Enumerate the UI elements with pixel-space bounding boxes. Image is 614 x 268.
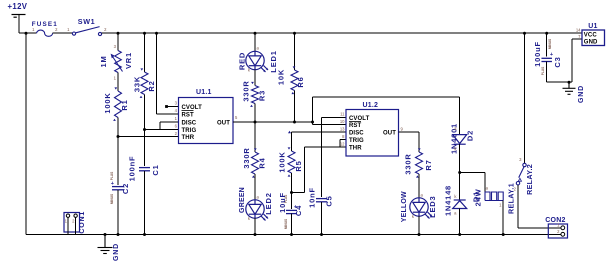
wire R1 to THR node <box>117 118 119 186</box>
svg-text:R6: R6 <box>296 76 305 87</box>
svg-text:C2: C2 <box>121 183 130 194</box>
svg-text:THR: THR <box>349 145 362 151</box>
wire VR1 to R1 <box>117 73 119 92</box>
svg-text:33K: 33K <box>133 76 142 92</box>
svg-text:1N4148: 1N4148 <box>443 185 452 216</box>
svg-text:VR1: VR1 <box>124 52 133 69</box>
relay coil RELAY.1 24W <box>485 192 503 201</box>
svg-text:MINUS: MINUS <box>548 39 552 49</box>
wire R2 to C1 <box>144 95 146 167</box>
svg-text:+: + <box>111 181 114 187</box>
wire top link down to D2 <box>459 97 461 135</box>
switch SW1 <box>72 27 101 36</box>
wire CVOLT U1.2 to C5 <box>322 117 347 119</box>
svg-text:U1.2: U1.2 <box>363 102 379 109</box>
LED LED2 green <box>246 200 268 221</box>
svg-text:SW1: SW1 <box>78 17 95 26</box>
wire OUT U1.2 to R7 <box>399 131 420 133</box>
capacitor C5 10nF <box>316 199 327 202</box>
wire RST stub U1.2 <box>313 124 347 126</box>
svg-text:MINUS: MINUS <box>284 219 288 229</box>
svg-text:11: 11 <box>340 112 345 117</box>
resistor R4 330R <box>252 152 259 174</box>
wire C2 to ground rail <box>117 190 119 235</box>
svg-text:THR: THR <box>182 135 195 141</box>
svg-text:DISC: DISC <box>182 120 197 126</box>
wire top link to D2 <box>313 96 460 98</box>
wire rail to contact <box>524 33 526 163</box>
wire THR line U1.1 <box>118 136 179 138</box>
node R5 C4 junction <box>290 191 293 194</box>
svg-text:LED2: LED2 <box>264 192 273 214</box>
wire R3 to OUT line <box>254 104 256 123</box>
wire R6 to OUT line <box>294 91 296 123</box>
power block U1 <box>582 30 605 46</box>
svg-text:PLUS: PLUS <box>541 67 545 76</box>
svg-text:14: 14 <box>576 28 581 33</box>
wire vertical to top link <box>312 97 314 125</box>
wire CVOLT stub U1.1 <box>165 105 168 108</box>
svg-text:TRIG: TRIG <box>349 138 364 144</box>
svg-text:TRIG: TRIG <box>182 128 197 134</box>
svg-text:CVOLT: CVOLT <box>349 116 370 122</box>
svg-text:12: 12 <box>340 142 345 147</box>
node rail LED1 junction <box>254 32 257 35</box>
wire R7 to LED3 <box>418 174 420 198</box>
svg-text:24W: 24W <box>474 188 483 206</box>
wire rail to C3 <box>546 33 548 56</box>
wire D1 to ground rail <box>459 209 461 235</box>
relay contact RELAY.2 <box>516 163 526 185</box>
node rail C3 junction <box>545 32 548 35</box>
wire rail to R2 <box>144 33 146 72</box>
svg-text:C4: C4 <box>294 205 303 216</box>
svg-text:MINUS: MINUS <box>110 194 114 204</box>
resistor R6 10K <box>291 70 298 91</box>
svg-text:OUT: OUT <box>383 130 396 136</box>
svg-text:+12V: +12V <box>8 2 28 11</box>
capacitor C1 100nF <box>139 168 150 171</box>
resistor R2 33K <box>141 72 148 95</box>
svg-text:DISC: DISC <box>349 130 364 136</box>
node gnd junction <box>568 81 571 84</box>
wire R4 to LED2 <box>254 174 256 200</box>
svg-text:C5: C5 <box>325 195 334 206</box>
wire LED1 to R3 <box>254 70 256 86</box>
svg-text:RED: RED <box>238 52 247 70</box>
svg-text:330R: 330R <box>404 153 413 174</box>
wire elbow to THR U1.2 <box>292 192 305 194</box>
svg-text:VCC: VCC <box>584 32 598 38</box>
node rail R6 junction <box>293 32 296 35</box>
svg-text:U1: U1 <box>588 23 597 30</box>
node rail R2 junction <box>143 32 146 35</box>
wire coil to ground rail <box>502 201 504 235</box>
wire LED3 to ground rail <box>418 216 420 234</box>
wire contact to CON2 <box>517 185 519 228</box>
svg-text:CON2: CON2 <box>545 217 565 224</box>
wire OUT U1.1 line <box>233 121 313 123</box>
wire TRIG line U1.1 <box>145 129 179 131</box>
wire U1 pin7 down <box>571 39 573 82</box>
svg-text:RELAY.2: RELAY.2 <box>525 164 534 195</box>
svg-text:CVOLT: CVOLT <box>182 105 203 111</box>
resistor R1 100K <box>115 91 122 118</box>
svg-text:CON1: CON1 <box>79 211 86 234</box>
resistor R7 330R <box>416 152 423 174</box>
svg-text:R5: R5 <box>294 160 303 171</box>
svg-text:C3: C3 <box>553 56 562 67</box>
wire top rail left <box>19 32 37 34</box>
svg-text:1M: 1M <box>99 55 108 67</box>
svg-text:GND: GND <box>113 243 120 261</box>
wire LED2 to ground rail <box>254 218 256 234</box>
wire D2 to D1 <box>459 144 461 200</box>
svg-text:R1: R1 <box>120 99 129 110</box>
svg-text:10: 10 <box>340 119 345 124</box>
svg-text:100K: 100K <box>103 92 112 113</box>
svg-text:U1.1: U1.1 <box>196 89 212 96</box>
connector CON2 <box>548 227 561 229</box>
node +12V left drop junction <box>25 32 28 35</box>
node coil branch junction <box>458 171 461 174</box>
svg-text:YELLOW: YELLOW <box>401 191 408 222</box>
LED LED1 red <box>246 51 268 72</box>
svg-text:FUSE1: FUSE1 <box>32 21 58 28</box>
op-amp U1.1 timer block <box>179 98 234 144</box>
svg-text:RST: RST <box>349 123 362 129</box>
svg-text:100nF: 100nF <box>128 156 137 182</box>
svg-text:330R: 330R <box>242 147 251 168</box>
wire bottom ground rail <box>26 234 548 236</box>
capacitor C4 10uF <box>286 210 297 213</box>
connector CON1 <box>64 213 80 233</box>
wire top rail right <box>102 32 582 34</box>
diode D2 1N4001 <box>453 135 467 145</box>
op-amp U1.2 timer block <box>346 110 399 157</box>
svg-text:RST: RST <box>182 112 195 118</box>
diode D1 1N4148 <box>453 200 467 209</box>
wire C5 to ground rail <box>321 202 323 235</box>
potentiometer VR1 1M <box>115 51 122 73</box>
wire rail to LED1 <box>254 33 256 51</box>
wire C4 to ground rail <box>291 214 293 235</box>
wire DISC U1.2 to R5 <box>292 131 347 133</box>
svg-text:PLUS: PLUS <box>110 172 114 181</box>
wire rail to VR1 <box>117 33 119 50</box>
svg-text:LED3: LED3 <box>428 196 437 218</box>
wire fuse to switch <box>53 32 73 34</box>
svg-text:330R: 330R <box>242 80 251 101</box>
wire rail to RST U1.1 <box>155 32 158 35</box>
LED LED3 yellow <box>410 198 432 219</box>
node rail relay contact junction <box>523 32 526 35</box>
svg-text:R3: R3 <box>258 90 267 101</box>
ground symbol top right <box>563 82 576 94</box>
svg-text:13: 13 <box>340 127 345 132</box>
svg-text:R7: R7 <box>424 159 433 170</box>
svg-text:GND: GND <box>584 40 598 46</box>
node THR junction <box>117 135 120 138</box>
svg-text:C1: C1 <box>151 164 160 175</box>
capacitor C3 100uF <box>541 58 552 61</box>
fuse FUSE1 <box>37 30 53 36</box>
svg-text:OUT: OUT <box>217 120 230 126</box>
wire DISC jog U1.1 <box>160 121 179 123</box>
node TRIG junction <box>143 128 146 131</box>
svg-text:GND: GND <box>578 85 585 103</box>
wire OUT to R4 <box>254 122 256 152</box>
svg-text:10uF: 10uF <box>278 192 287 213</box>
resistor R5 100K <box>288 151 295 173</box>
svg-text:100uF: 100uF <box>533 41 542 67</box>
svg-text:D2: D2 <box>466 130 475 141</box>
ground symbol bottom <box>104 233 107 236</box>
wire left vertical drop <box>25 33 27 234</box>
svg-text:100K: 100K <box>278 151 287 172</box>
power symbol +12V <box>12 15 26 18</box>
wire C3 to gnd net <box>546 62 548 83</box>
wire R5 to C4 node <box>291 173 293 209</box>
svg-text:R4: R4 <box>258 157 267 168</box>
wire rail to R6 <box>294 33 296 70</box>
resistor R3 330R <box>252 86 259 104</box>
wire C1 to ground rail <box>144 171 146 235</box>
svg-text:10nF: 10nF <box>308 187 317 208</box>
svg-text:10K: 10K <box>277 69 286 85</box>
capacitor C2 <box>112 187 124 190</box>
node rail VR1 junction <box>117 32 120 35</box>
wire branch to relay coil <box>460 172 485 174</box>
wire TRIG jog U1.2 <box>340 139 346 141</box>
svg-text:R2: R2 <box>147 80 156 91</box>
svg-text:GREEN: GREEN <box>239 187 246 213</box>
